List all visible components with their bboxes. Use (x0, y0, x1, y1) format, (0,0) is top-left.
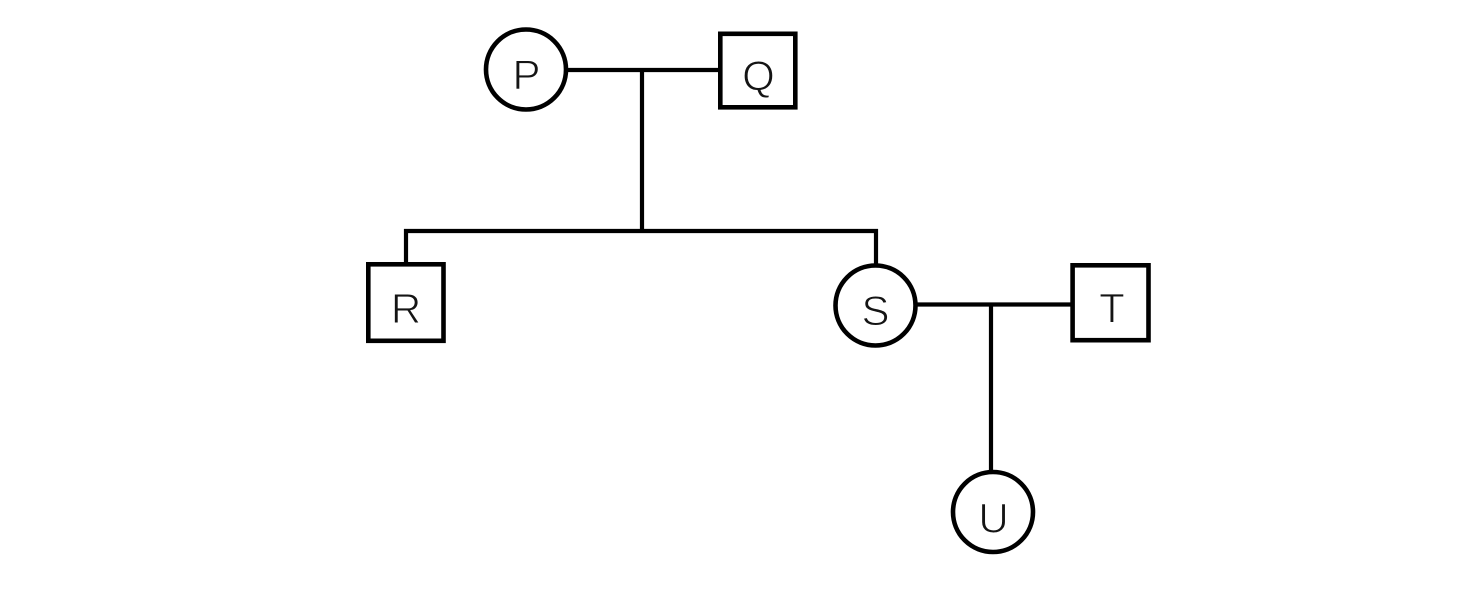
node Q (square, male) (720, 34, 795, 108)
wire descent from S-T to U (989, 305, 993, 474)
svg-text:U: U (978, 495, 1008, 542)
node P (circle, female) (486, 30, 566, 110)
svg-text:R: R (391, 285, 421, 332)
wire descent from P-Q to sibling bar (640, 70, 644, 233)
node S (circle, female) (836, 266, 916, 346)
wire sibling bar (404, 229, 878, 233)
node U (circle, female) (953, 472, 1033, 552)
svg-text:Q: Q (742, 52, 775, 99)
wire drop to S (874, 229, 878, 266)
svg-text:P: P (512, 51, 540, 98)
node T (square, male) (1073, 265, 1149, 340)
wire S-T couple line (914, 302, 1074, 306)
wire drop to R (404, 229, 408, 264)
svg-text:S: S (861, 287, 889, 334)
node R (square, male) (368, 264, 443, 341)
wire P-Q couple line (560, 68, 722, 72)
svg-text:T: T (1099, 285, 1125, 332)
